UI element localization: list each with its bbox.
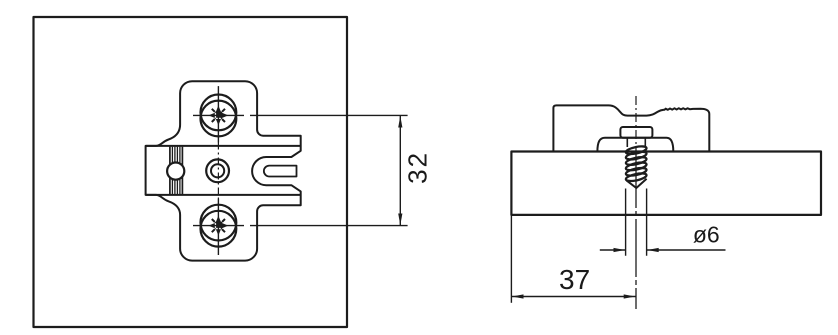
svg-text:32: 32 bbox=[403, 151, 433, 184]
dim dia6 arrow lines bbox=[600, 249, 726, 251]
pozidriv star bottom screw bbox=[209, 216, 229, 236]
dim 32 arrowheads bbox=[398, 116, 402, 225]
centre hole outer bbox=[206, 159, 229, 182]
centre hole inner bbox=[211, 164, 224, 177]
cam adjustment circle bbox=[167, 163, 184, 180]
dim 32 extension lines bbox=[250, 115, 408, 225]
side view: wooden panel section bbox=[511, 152, 821, 215]
pozidriv star top screw bbox=[209, 106, 229, 126]
svg-text:ø6: ø6 bbox=[693, 222, 720, 248]
crosshair bottom screw bbox=[193, 199, 244, 256]
crosshair top screw bbox=[193, 86, 244, 142]
side view: screw centreline bbox=[635, 96, 637, 150]
mounting plate outline (front view) bbox=[146, 81, 301, 260]
side view: screw thread coil bbox=[625, 145, 647, 183]
fork slot (front view) bbox=[264, 166, 297, 177]
dim dia6 arrowheads bbox=[614, 248, 659, 252]
dim 37 extension line bbox=[510, 216, 512, 303]
screw top: head circles bbox=[201, 95, 237, 131]
side view: screw head bbox=[620, 127, 652, 138]
svg-text:37: 37 bbox=[559, 264, 590, 295]
dim 37 arrowheads bbox=[512, 294, 635, 298]
wing band edges bbox=[146, 146, 301, 195]
side view: hole edges / dia-6 extension lines bbox=[626, 189, 647, 256]
side view: screw shank below head bbox=[627, 138, 645, 147]
side view: plate boss/dome bbox=[597, 138, 673, 152]
cabinet door panel (front view square) bbox=[34, 17, 348, 327]
side view: screw tip bbox=[627, 179, 647, 188]
dim 32 dimension line bbox=[399, 115, 401, 225]
hatched wing strip bbox=[170, 147, 183, 195]
screw bottom: head circles bbox=[201, 205, 237, 241]
side view: mounting plate profile bbox=[553, 105, 709, 151]
centreline between screws bbox=[217, 143, 219, 199]
dim 37 dimension line bbox=[511, 296, 635, 298]
